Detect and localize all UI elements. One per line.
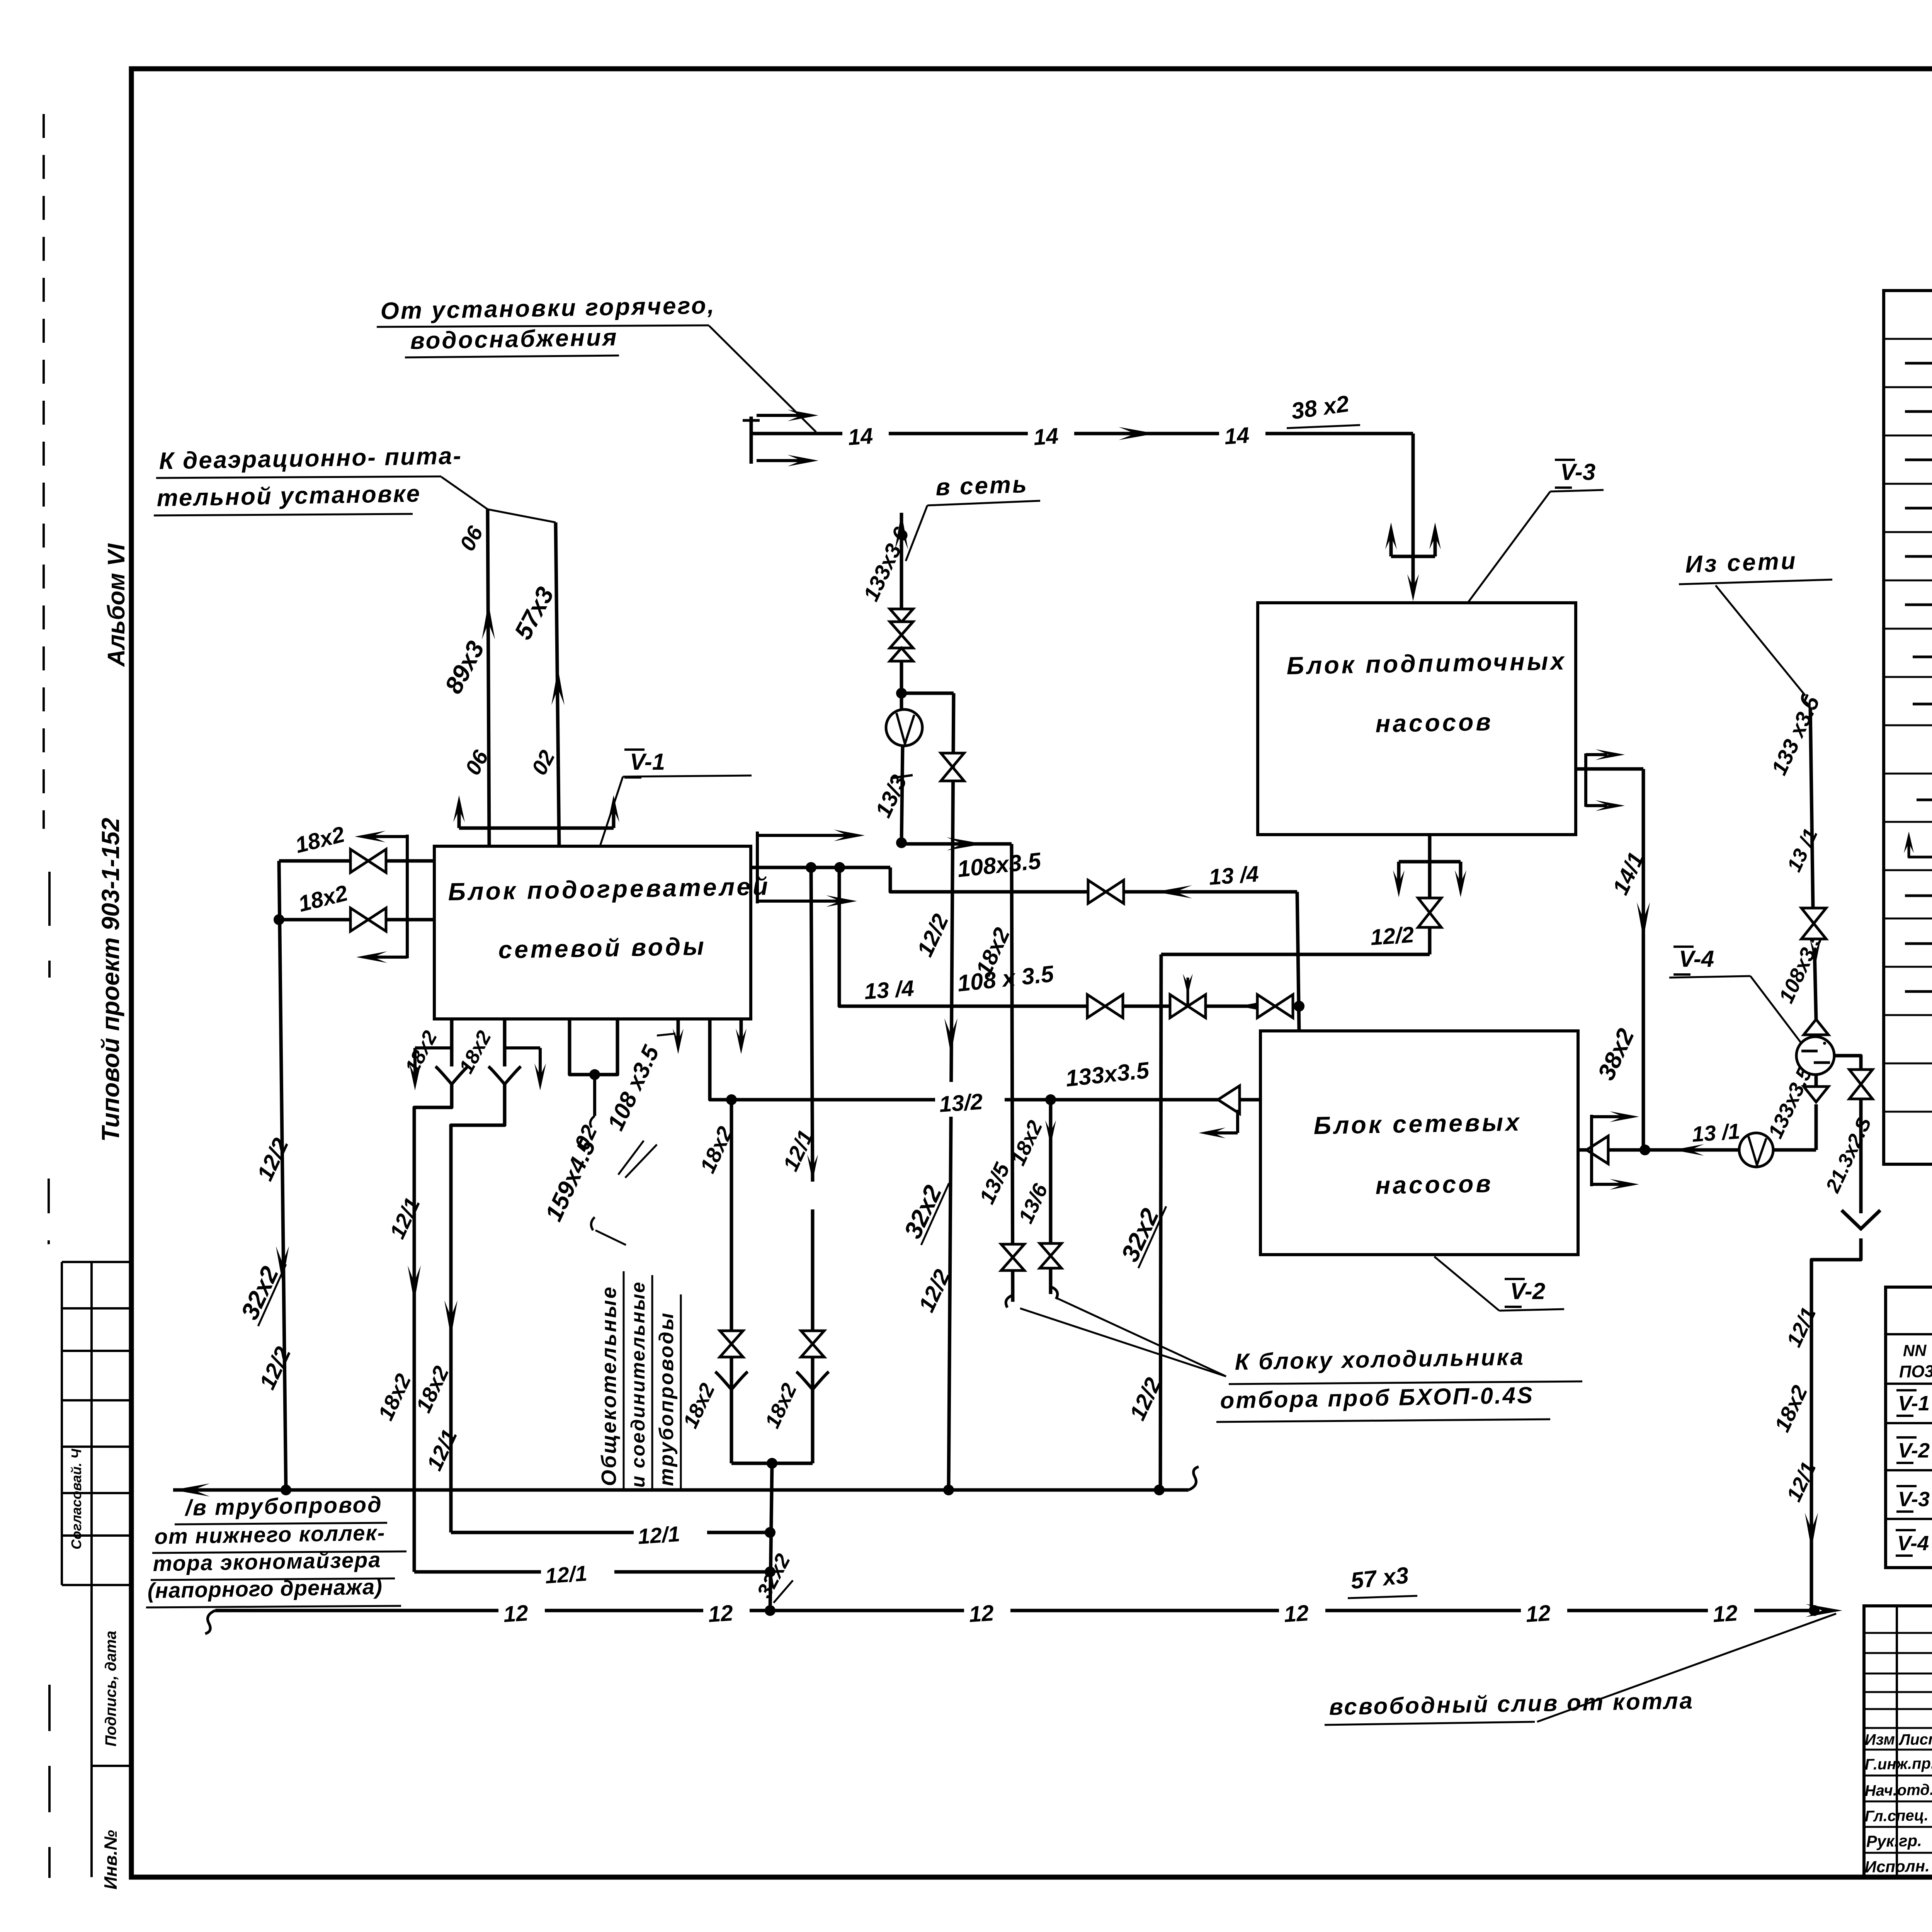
boundary bracket right of V-1 — [756, 832, 759, 903]
drain funnel A2 — [488, 1066, 521, 1084]
svg-text:V-2: V-2 — [1898, 1439, 1930, 1462]
reducer into V-2 — [1218, 1086, 1240, 1114]
block V-1 Блок подогревателей сетевой воды — [434, 846, 751, 1019]
wire 12/1 line B — [414, 1570, 770, 1574]
svg-text:Блок подпиточных: Блок подпиточных — [1286, 647, 1567, 680]
svg-text:ПО3.: ПО3. — [1899, 1362, 1932, 1381]
junction dot at pump branch — [896, 688, 907, 699]
wire stub funnel A2 — [503, 1019, 507, 1066]
legend row Клапан регулирующий — [1913, 656, 1932, 658]
svg-text:Лист: Лист — [1898, 1731, 1932, 1748]
drain header 159x4.5 under V-1 — [570, 1019, 617, 1075]
left margin sidebar boxes lower — [92, 1765, 131, 1767]
valve on riser — [1801, 908, 1826, 939]
legend row Переход — [1917, 799, 1932, 801]
flow arrow down on riser — [1637, 902, 1650, 939]
svg-text:12: 12 — [707, 1600, 734, 1627]
flow arrow up on pipe 06 — [482, 603, 495, 639]
svg-text:Блок подогревателей: Блок подогревателей — [448, 872, 770, 906]
wire drain collector with left arrow — [173, 1488, 1189, 1492]
wire 13/3 to 18x2 drop with flow arrow — [901, 842, 1012, 846]
legend row Граница проектирования — [1909, 838, 1932, 857]
label 14 a — [842, 417, 889, 450]
leader to bottom line — [1537, 1614, 1836, 1722]
flow arrow up on pipe 02 — [551, 668, 565, 705]
flow arrow down — [1810, 939, 1821, 966]
wire left drain vertical 12/2 — [279, 861, 286, 1490]
wire valve branch upper left of V-1 18x2 — [279, 859, 434, 863]
junction dot to 13/4 drop — [834, 862, 845, 873]
svg-text:12: 12 — [968, 1600, 995, 1627]
svg-text:12: 12 — [1283, 1600, 1310, 1627]
pipe 14 corner down to V-3 — [1412, 434, 1415, 556]
label 13/2 — [935, 1082, 1005, 1117]
wire bus drop to bottom line 12 — [770, 1463, 772, 1611]
svg-text:Общекотельные: Общекотельные — [597, 1286, 621, 1486]
mud separator V-4 Грязевик — [1796, 1037, 1834, 1075]
block V-2 Блок сетевых насосов — [1260, 1031, 1578, 1255]
svg-text:12/2: 12/2 — [1369, 922, 1415, 950]
flow arrow down bottom — [1805, 1513, 1818, 1549]
wire V-1 outlet main header — [751, 866, 890, 869]
hook at left end — [205, 1611, 215, 1634]
svg-text:К деаэрационно- пита-: К деаэрационно- пита- — [159, 442, 463, 474]
wire funnel A1 to line 12/1 — [414, 1084, 452, 1572]
flow arrow up в сеть — [895, 513, 908, 549]
svg-text:тельной установке: тельной установке — [156, 480, 421, 512]
reducer above V-4 — [1804, 1019, 1828, 1035]
legend row 06 Конденсатопровод — [1905, 410, 1932, 413]
svg-text:13/2: 13/2 — [938, 1089, 983, 1117]
labels 12 on bottom line — [498, 1593, 545, 1625]
svg-text:Из сети: Из сети — [1685, 548, 1798, 578]
left margin sidebar boxes upper — [61, 1262, 63, 1585]
wire riser from network — [1815, 951, 1816, 1019]
svg-text:Подпись, дата: Подпись, дата — [102, 1631, 119, 1747]
svg-text:насосов: насосов — [1375, 1170, 1493, 1199]
wire 13/2 network line — [710, 1019, 1260, 1100]
wire valve stub into V-2 — [1294, 1001, 1304, 1012]
control valve клапан регулирующий — [1170, 995, 1206, 1018]
svg-text:12: 12 — [1712, 1600, 1738, 1627]
wire 12/1 drop from header dot — [811, 867, 813, 1182]
junction dot at right end — [1809, 1605, 1820, 1616]
svg-text:NN: NN — [1903, 1341, 1927, 1360]
wire valve branch lower left of V-1 18x2 — [279, 918, 434, 922]
wire stub funnel A1 — [450, 1019, 454, 1066]
svg-text:Исполн.: Исполн. — [1864, 1857, 1930, 1876]
svg-text:Рук.гр.: Рук.гр. — [1866, 1831, 1922, 1850]
svg-text:Нач.отд.: Нач.отд. — [1864, 1781, 1932, 1799]
valve on 108x3.5 upper — [1088, 880, 1124, 903]
svg-text:Гл.спец.: Гл.спец. — [1864, 1807, 1929, 1825]
leader hook to rotated note — [591, 1217, 595, 1230]
wire 13/3 riser with pump and valves to network — [900, 513, 903, 611]
hook end 13/5 — [1006, 1295, 1013, 1308]
svg-text:(напорного дренажа): (напорного дренажа) — [147, 1574, 383, 1603]
V-4 bypass branch — [1834, 1056, 1861, 1069]
junction dot V-2 outlet — [1639, 1145, 1650, 1155]
hook top of riser — [1803, 693, 1810, 707]
wire pair-b right continuation — [811, 1209, 815, 1463]
svg-text:от нижнего коллек-: от нижнего коллек- — [154, 1520, 386, 1549]
leader to note холодильника — [1020, 1308, 1226, 1376]
svg-text:12: 12 — [502, 1600, 529, 1627]
svg-text:Согласовай. Ч: Согласовай. Ч — [68, 1448, 84, 1549]
legend row 02 Паропровод — [1905, 362, 1932, 365]
wire pump bypass branch — [901, 692, 954, 695]
funnel pair-b right — [796, 1372, 829, 1389]
flow arrow left — [1238, 1000, 1269, 1012]
flow arrow down — [444, 1300, 457, 1337]
valve on upper branch — [350, 849, 386, 872]
reducer at V-2 outlet — [1578, 1148, 1643, 1152]
wire 13/4 lower 108x3.5 line — [839, 867, 1299, 1006]
junction dot to 12/1 drop — [806, 862, 816, 873]
pipe 02 riser — [556, 522, 559, 846]
valve below V-3 — [1428, 862, 1432, 954]
block V-3 Блок подпиточных насосов — [1258, 603, 1576, 835]
left margin dash line — [43, 114, 45, 829]
valve on riser — [890, 622, 913, 648]
drain funnel A1 — [435, 1066, 468, 1084]
svg-text:13 /1: 13 /1 — [1691, 1119, 1741, 1146]
pump on 13/1 — [1739, 1133, 1773, 1167]
valve on lower 108 line — [1087, 995, 1123, 1018]
wire jog to 108x3.5 upper line — [890, 867, 1297, 892]
svg-text:Инв.№: Инв.№ — [100, 1830, 121, 1889]
hook end 13/6 — [1051, 1287, 1058, 1299]
svg-text:V-4: V-4 — [1897, 1532, 1929, 1555]
wire 12/1 line A — [451, 1531, 770, 1534]
svg-text:тора экономайзера: тора экономайзера — [153, 1548, 381, 1576]
flow arrow left on upper line — [1155, 885, 1192, 898]
valve on lower branch — [350, 908, 386, 931]
valve pair-b left — [720, 1331, 743, 1357]
valve on bypass — [1849, 1070, 1872, 1099]
junction dot left vertical — [274, 914, 284, 925]
wire funnel A2 to line 12/1 — [451, 1084, 505, 1532]
wire 38x2 riser to V-3 bracket — [1642, 769, 1645, 1150]
svg-text:12/1: 12/1 — [544, 1561, 588, 1588]
side arrow right — [505, 1046, 540, 1049]
pump circle — [886, 709, 922, 746]
label 14 c — [1219, 417, 1265, 450]
valve right on lower 108 line — [1257, 995, 1293, 1018]
svg-text:сетевой воды: сетевой воды — [498, 932, 706, 964]
junction dot 13/3 bottom — [896, 837, 907, 848]
pipe 14 horizontal — [751, 432, 1413, 435]
svg-text:водоснабжения: водоснабжения — [410, 324, 618, 354]
funnel pair-b left — [715, 1372, 748, 1389]
equipment table Перечень оборудования — [1886, 1287, 1932, 1568]
valve pair-b right — [801, 1331, 824, 1357]
svg-text:V-3: V-3 — [1898, 1488, 1930, 1511]
junction dot 13/2 at 13/6 — [1045, 1094, 1056, 1105]
hook at right end of collector — [1189, 1467, 1199, 1490]
legend row 13 Трубопровод сетевой воды — [1905, 507, 1932, 510]
svg-text:V-4: V-4 — [1679, 946, 1714, 972]
wire to 12/1 drop — [1811, 1238, 1861, 1611]
boundary bracket right of V-2 — [1590, 1115, 1593, 1186]
wire 12/2 from V-3 drain — [1161, 953, 1430, 956]
flow arrow down — [276, 1246, 289, 1283]
svg-text:13 /4: 13 /4 — [1208, 861, 1259, 890]
wire 12/2 drop to lower 108 line — [1160, 954, 1161, 1490]
svg-text:Блок сетевых: Блок сетевых — [1313, 1108, 1522, 1139]
boundary bracket left of V-1 — [406, 835, 409, 958]
junction dot at bottom of drop — [765, 1605, 776, 1616]
svg-text:в сеть: в сеть — [935, 471, 1029, 501]
make-up manifold above V-3 — [1391, 555, 1435, 558]
connection-absent tick on 13/3 — [891, 775, 913, 778]
reducer below V-4 — [1804, 1087, 1828, 1102]
wire 13/1 suction line — [1643, 1148, 1738, 1152]
svg-text:14: 14 — [1223, 423, 1250, 449]
legend row Вентиль задвижка — [1913, 703, 1932, 706]
legend row Соединение трубопроводов — [1905, 895, 1932, 897]
valve on bypass — [941, 753, 964, 781]
valve on 13/5 drop — [1001, 1244, 1024, 1270]
wire 18x2 / 13/5 vertical — [1012, 844, 1013, 1302]
boundary bracket above block V-1 — [459, 827, 614, 830]
legend table Условные обозначения — [1884, 291, 1932, 1164]
svg-text:Типовой проект 903-1-152: Типовой проект 903-1-152 — [97, 818, 124, 1142]
wire long drain 12/2 vertical — [949, 693, 954, 1490]
label 12/1 — [634, 1515, 707, 1546]
reducer triangle — [890, 609, 913, 622]
svg-text:и соединительные: и соединительные — [627, 1281, 649, 1488]
boundary mark at start of pipe 14 — [750, 417, 753, 464]
svg-text:13 /4: 13 /4 — [863, 976, 915, 1004]
drain manifold below V-3 — [1428, 835, 1432, 862]
label 14 b — [1028, 417, 1074, 450]
legend row 14 Трубопровод подпиточной воды — [1905, 555, 1932, 558]
wire upper 108x3.5 corner down to join — [1297, 892, 1299, 1031]
svg-text:V-2: V-2 — [1510, 1278, 1545, 1304]
legend row 12 Трубопровод слива и дренажа — [1905, 459, 1932, 461]
flow arrow down mid — [944, 1018, 957, 1055]
flow arrow left on 13/2 — [924, 1093, 961, 1106]
legend row Соединение трубопроводов отсутствует — [1905, 942, 1932, 945]
svg-text:V-1: V-1 — [630, 749, 665, 775]
svg-text:V-1: V-1 — [1898, 1392, 1930, 1415]
junction dot 13/2 left — [726, 1094, 737, 1105]
boundary bracket right of V-3 — [1584, 753, 1587, 807]
junction dots on collector — [281, 1485, 291, 1495]
reducer triangle 2 — [890, 648, 913, 661]
flow arrow right — [1119, 427, 1155, 440]
flow arrow down — [408, 1265, 421, 1302]
side arrow left — [415, 1046, 452, 1049]
leader to pipe 14 — [709, 326, 816, 432]
junction dot — [1294, 1001, 1304, 1012]
svg-text:12: 12 — [1525, 1600, 1551, 1627]
svg-text:Изм: Изм — [1864, 1731, 1895, 1748]
wire pair-b left drop from 13/2 — [730, 1100, 733, 1463]
svg-text:отбора проб БХОП-0.4S: отбора проб БХОП-0.4S — [1220, 1382, 1534, 1413]
flow arrow left on 13/1 — [1673, 1144, 1704, 1156]
legend row 15 Трубопровод исходной воды — [1905, 604, 1932, 606]
wire 13/6 drop — [1049, 1100, 1053, 1294]
block V-1 stub arrows lower — [677, 1019, 680, 1043]
svg-text:/в трубопровод: /в трубопровод — [184, 1492, 383, 1520]
flow arrow right — [1806, 1604, 1842, 1617]
leaders to pipes 06 02 — [441, 477, 488, 509]
wire bottom drain line 12 — [215, 1609, 1814, 1612]
svg-text:Г.инж.пр.: Г.инж.пр. — [1864, 1755, 1932, 1773]
svg-text:К блоку холодильника: К блоку холодильника — [1235, 1344, 1525, 1375]
legend row Направление движения среды — [1905, 990, 1932, 993]
title block frame — [1864, 1606, 1932, 1877]
stub arrows into V-2 left — [1236, 1110, 1239, 1133]
svg-text:V-3: V-3 — [1560, 459, 1595, 485]
svg-text:насосов: насосов — [1375, 708, 1493, 738]
label 12/1 — [541, 1554, 614, 1585]
mud separator V-4 riser — [1815, 1104, 1818, 1150]
svg-text:12/1: 12/1 — [637, 1522, 680, 1549]
svg-text:трубопроводы: трубопроводы — [655, 1311, 678, 1486]
svg-text:Альбом VI: Альбом VI — [103, 543, 130, 667]
svg-text:14: 14 — [1032, 423, 1059, 450]
valve on 13/6 — [1040, 1243, 1061, 1268]
svg-text:14: 14 — [847, 423, 874, 450]
drain funnel below bypass — [1842, 1210, 1880, 1229]
wire funnel bus — [731, 1462, 813, 1465]
pipe 06 riser — [488, 509, 489, 846]
